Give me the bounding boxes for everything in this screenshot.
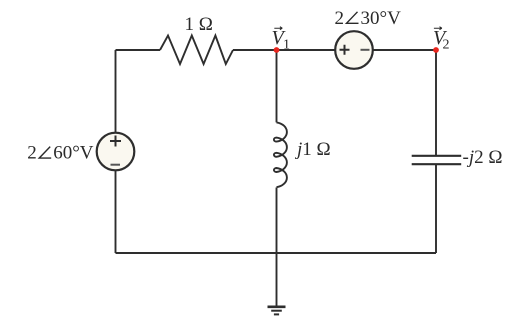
U2 plus sign <box>340 45 350 55</box>
wire right-lower (capacitor to bottom-right corner) <box>435 165 437 253</box>
wire top-mid (resistor to source circle) <box>233 49 335 51</box>
ground stub wire <box>276 253 278 306</box>
svg-text:1: 1 <box>283 38 290 53</box>
node label V1 <box>272 27 291 53</box>
U1 plus sign <box>110 136 121 147</box>
wire top-left (from top-left corner to resistor) <box>116 49 161 51</box>
wire top-right (source circle to node V2) <box>373 49 436 51</box>
voltage source U2 2∠30°V circle <box>335 31 373 69</box>
svg-text:30°V: 30°V <box>361 8 402 29</box>
wire bottom <box>116 252 437 254</box>
capacitor C bottom plate <box>412 163 462 165</box>
svg-text:1 Ω: 1 Ω <box>185 14 213 35</box>
U2 minus sign <box>361 49 370 51</box>
wire left-lower (source bottom to bottom-left corner) <box>115 170 117 253</box>
node label V2 <box>433 27 450 53</box>
svg-text:j1 Ω: j1 Ω <box>294 139 331 160</box>
voltage source U1 2∠60°V circle <box>97 133 135 171</box>
svg-text:2: 2 <box>335 8 345 29</box>
svg-text:2: 2 <box>443 38 450 53</box>
resistor R 1 ohm zigzag <box>160 36 233 65</box>
angle symbol for U2 label <box>347 12 359 23</box>
node V2 red dot <box>433 47 439 53</box>
svg-text:2: 2 <box>27 143 37 164</box>
wire mid-lower (inductor down to bottom wire) <box>276 188 278 254</box>
svg-text:-j2 Ω: -j2 Ω <box>463 147 503 168</box>
wire left (top-left corner down to source) <box>115 50 117 133</box>
svg-text:60°V: 60°V <box>53 143 94 164</box>
node V1 red dot <box>274 47 280 53</box>
capacitor C -j2 ohm top plate <box>412 155 462 157</box>
inductor L j1 ohm <box>274 122 287 187</box>
wire right-upper (node V2 down to capacitor) <box>435 50 437 156</box>
ground symbol bars <box>268 307 286 315</box>
wire mid-upper (node V1 down to inductor) <box>276 50 278 122</box>
U1 minus sign <box>111 164 121 166</box>
angle symbol for U1 label <box>39 147 51 159</box>
